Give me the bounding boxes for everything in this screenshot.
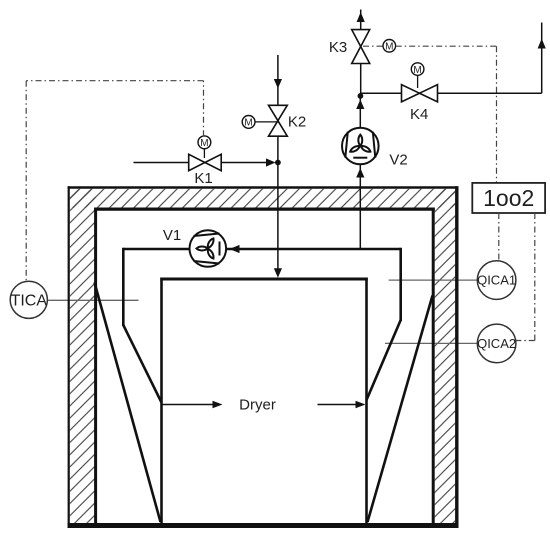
junction dot K1/K2 (275, 160, 281, 166)
svg-text:V2: V2 (389, 152, 407, 169)
inner wall left line (94, 208, 97, 523)
dryer container left edge (160, 278, 163, 524)
dash-dot TICA loop horizontal (26, 80, 203, 82)
instrument TICA (10, 281, 47, 318)
K1 actuator stem (203, 148, 205, 158)
outer box left border (68, 186, 70, 528)
K2 pipe lower (277, 136, 279, 270)
K3 vent arrow (357, 12, 365, 22)
QICA2 connection line (385, 342, 478, 344)
K1 line to junction (221, 162, 268, 164)
dryer container right edge (365, 278, 368, 524)
K4 line from junction (360, 92, 401, 94)
recirculation duct left diagonal (123, 325, 161, 403)
svg-text:V1: V1 (163, 227, 181, 244)
valve K2 (269, 105, 288, 136)
recirculation duct top line (123, 248, 400, 251)
K2 actuator stem (255, 121, 278, 123)
K2 pipe bottom arrow (274, 268, 282, 277)
1oo2 voting box (472, 183, 545, 213)
dash-dot 1oo2 to QICA1 (498, 213, 500, 261)
valve K3 (352, 30, 370, 64)
K3 vent line (360, 10, 362, 30)
K4 line to right riser (438, 92, 542, 94)
left baffle diagonal (95, 283, 161, 523)
K4 actuator stem (417, 75, 419, 88)
K4 motor M (411, 63, 424, 76)
wall hatching left band (70, 189, 96, 523)
valve K4 (402, 85, 438, 102)
instrument QICA1 (477, 261, 516, 300)
fan V1 (190, 230, 227, 267)
outer box top border (68, 186, 459, 189)
junction dot V2/K3/K4 (358, 93, 364, 99)
outer box right border (455, 186, 458, 528)
dryer right flow arrow (318, 404, 357, 406)
svg-text:K2: K2 (288, 114, 306, 131)
K1 junction arrow (266, 158, 276, 166)
K3 riser pipe (360, 64, 362, 96)
TICA connection line (45, 299, 139, 301)
right baffle diagonal (368, 296, 433, 523)
svg-text:TICA: TICA (11, 292, 48, 309)
K2 pipe down arrow (274, 79, 282, 89)
svg-text:M: M (244, 118, 252, 129)
QICA1 connection line (389, 279, 478, 281)
V2 discharge arrow (356, 100, 364, 110)
right riser pipe (541, 23, 543, 94)
svg-text:K3: K3 (329, 39, 347, 56)
V2 suction arrow (356, 168, 364, 178)
dash-dot TICA loop down to TICA (25, 81, 27, 281)
svg-text:K1: K1 (194, 170, 212, 187)
V2 discharge pipe (359, 96, 361, 128)
K2 motor M (242, 116, 255, 129)
fan V2 (342, 128, 379, 165)
dash-dot TICA loop vertical to K1-M (203, 81, 205, 137)
valve K1 (189, 154, 222, 170)
dash-dot M to corner (396, 45, 497, 47)
right riser arrow (538, 39, 546, 49)
instrument QICA2 (477, 324, 516, 363)
outer box bottom border (68, 523, 459, 528)
wall hatching top band (70, 189, 455, 208)
svg-text:M: M (413, 65, 421, 76)
dryer left flow arrow (163, 404, 214, 406)
K1 feed line left (134, 162, 190, 164)
svg-text:QICA1: QICA1 (477, 273, 516, 288)
wall hatching right band (435, 189, 456, 523)
dash-dot K3 valve to M (363, 45, 383, 47)
inner wall top line (94, 208, 435, 211)
recirculation duct right vertical (399, 248, 402, 321)
dash-dot QICA2 horizontal (516, 340, 535, 342)
svg-text:K4: K4 (410, 106, 428, 123)
svg-text:QICA2: QICA2 (477, 336, 516, 351)
dryer container top edge (160, 278, 367, 281)
svg-text:M: M (385, 42, 393, 53)
recirculation duct right diagonal (367, 320, 401, 400)
svg-text:M: M (200, 138, 208, 149)
inner wall right line (432, 208, 435, 523)
dash-dot corner down to 1oo2 (496, 46, 498, 183)
svg-text:Dryer: Dryer (239, 397, 276, 414)
svg-text:1oo2: 1oo2 (483, 185, 534, 211)
K3 motor M (383, 40, 396, 53)
K2 feed pipe upper (277, 55, 279, 106)
recirculation duct left vertical (122, 248, 125, 326)
dash-dot 1oo2 to QICA2 vertical (534, 213, 536, 341)
duct arrow into V1 (230, 245, 240, 253)
K1 motor M (198, 136, 211, 149)
V2 suction pipe (359, 165, 361, 250)
